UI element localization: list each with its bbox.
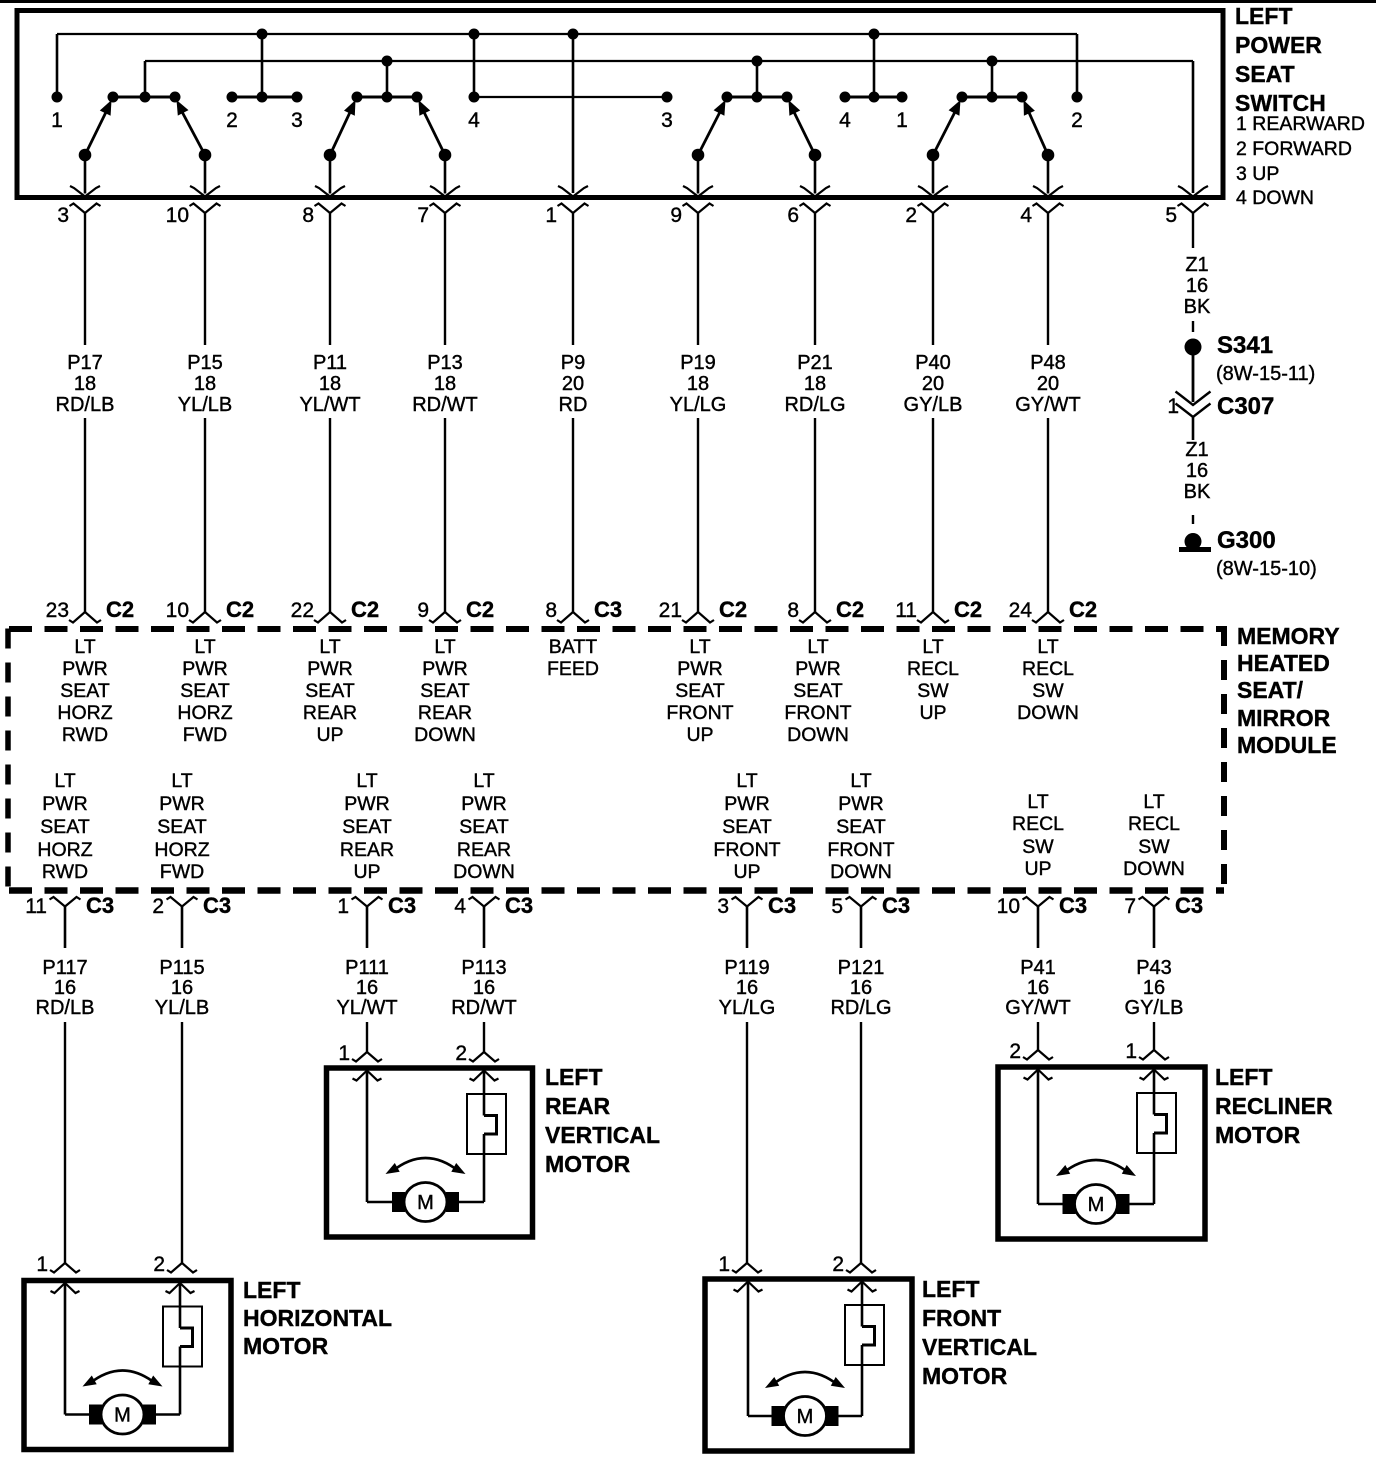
svg-text:18: 18 [804,373,826,395]
wire P41 lower / motor pin 2 connector [1009,1022,1053,1063]
svg-text:SEAT: SEAT [180,680,230,702]
svg-text:16: 16 [736,977,758,999]
svg-text:G300: G300 [1217,527,1276,554]
circuit breaker in left rear vertical motor [458,1071,507,1203]
svg-text:UP: UP [316,724,343,746]
switch S4 right wiper contact and arrow [1024,100,1064,197]
svg-text:2: 2 [832,1253,844,1276]
svg-text:9: 9 [417,599,429,622]
wire terminal 2-3 link [232,92,297,103]
svg-text:P21: P21 [797,352,833,374]
svg-text:SEAT: SEAT [40,816,90,838]
left front vertical motor pin 2 entry arrow [848,1282,877,1292]
circuit breaker in left horizontal motor [155,1283,203,1415]
left front vertical motor pin 1 entry arrow [734,1282,763,1292]
svg-text:C3: C3 [388,893,416,918]
svg-text:20: 20 [922,373,944,395]
connector C3 pin 1 / wire P111 upper [337,893,416,948]
svg-text:MOTOR: MOTOR [1215,1122,1301,1148]
svg-text:Z1: Z1 [1185,254,1208,276]
junction bus B x387 [382,56,393,98]
wire bus B right drop to pin 5 [1192,61,1195,193]
wire P13 lower / connector C2 pin 9 [417,418,494,623]
svg-text:8: 8 [545,599,557,622]
module input label LT PWR SEAT REAR DOWN [414,636,476,746]
svg-text:DOWN: DOWN [453,861,515,883]
svg-text:2: 2 [153,1253,165,1276]
svg-text:C3: C3 [882,893,910,918]
wire label P9 20 RD [559,352,588,416]
svg-text:23: 23 [46,599,69,622]
rotation arrow in left rear vertical motor [386,1158,466,1174]
svg-text:LEFT: LEFT [1235,3,1293,29]
svg-text:MODULE: MODULE [1237,732,1337,758]
wire label P121 16 RD/LG [830,957,891,1019]
svg-text:PWR: PWR [724,793,770,815]
label MEMORY HEATED SEAT/MIRROR MODULE [1237,623,1340,758]
svg-text:3: 3 [57,204,69,227]
module input label BATT FEED [547,636,599,680]
svg-text:C2: C2 [466,597,494,622]
svg-text:RECL: RECL [1012,813,1064,835]
node terminal 4 (right group) [839,92,851,133]
switch S3 right wiper contact and arrow [789,100,831,197]
svg-text:MIRROR: MIRROR [1237,705,1331,731]
svg-text:SEAT: SEAT [836,816,886,838]
svg-text:4: 4 [839,109,851,132]
wire P40 lower / connector C2 pin 11 [895,418,982,623]
svg-text:1: 1 [545,204,557,227]
svg-text:SEAT: SEAT [675,680,725,702]
svg-text:P17: P17 [67,352,103,374]
module input label LT PWR SEAT REAR UP [303,636,357,746]
wire bus A right drop to terminal 2 [1076,34,1079,97]
svg-text:GY/LB: GY/LB [904,394,963,416]
switch S1 right wiper contact and arrow [177,100,221,197]
svg-text:1: 1 [338,1042,350,1065]
svg-text:LT: LT [1037,636,1058,658]
motor M in left rear vertical motor [393,1183,459,1222]
svg-text:LT: LT [473,770,494,792]
wire bus B left drop to switch 1 center [144,61,147,97]
junction bus B x992 [987,56,998,98]
svg-text:REAR: REAR [340,839,394,861]
wire label P117 16 RD/LB [36,957,95,1019]
wire P11 lower / connector C2 pin 22 [291,418,379,623]
svg-text:6: 6 [787,204,799,227]
rotation arrow in left recliner motor [1056,1160,1136,1176]
ground G300 symbol [1179,533,1211,550]
module input label LT RECL SW DOWN [1017,636,1079,724]
wire label P43 16 GY/LB [1125,957,1184,1019]
wire left rear vertical motor left leg [367,1071,394,1203]
svg-text:(8W-15-10): (8W-15-10) [1216,558,1317,580]
svg-text:C3: C3 [594,597,622,622]
motor M in left horizontal motor [90,1395,156,1434]
svg-text:DOWN: DOWN [1123,858,1185,880]
svg-text:P19: P19 [680,352,716,374]
svg-text:LT: LT [434,636,455,658]
svg-text:9: 9 [670,204,682,227]
svg-text:2 FORWARD: 2 FORWARD [1236,138,1352,160]
svg-text:4 DOWN: 4 DOWN [1236,187,1314,209]
svg-text:LT: LT [319,636,340,658]
svg-text:RECL: RECL [907,658,959,680]
wire label P48 20 GY/WT [1015,352,1081,416]
svg-text:C2: C2 [351,597,379,622]
svg-text:SEAT: SEAT [305,680,355,702]
junction bus A x262 [257,29,268,98]
svg-text:18: 18 [434,373,456,395]
svg-text:M: M [797,1406,814,1428]
svg-text:LEFT: LEFT [922,1276,980,1302]
svg-text:(8W-15-11): (8W-15-11) [1216,363,1315,385]
svg-text:REAR: REAR [418,702,472,724]
svg-text:RD/LG: RD/LG [784,394,845,416]
svg-text:C3: C3 [203,893,231,918]
circuit breaker in left front vertical motor [837,1282,884,1417]
svg-text:P13: P13 [427,352,463,374]
svg-text:VERTICAL: VERTICAL [922,1334,1037,1360]
svg-text:BK: BK [1184,296,1211,318]
svg-text:LT: LT [922,636,943,658]
left rear vertical motor box [327,1068,533,1237]
wire left front vertical motor left leg [748,1282,773,1417]
svg-text:2: 2 [1009,1040,1021,1063]
svg-text:C2: C2 [954,597,982,622]
svg-text:PWR: PWR [838,793,884,815]
connector C3 pin 10 / wire P41 upper [997,893,1087,948]
label S341 [1217,332,1273,359]
svg-text:LEFT: LEFT [545,1064,603,1090]
label Z1 16 BK upper [1184,254,1211,318]
svg-text:SEAT: SEAT [793,680,843,702]
svg-text:2: 2 [905,204,917,227]
connector pin 8 at switch / wire P11 upper [302,204,345,346]
svg-text:C2: C2 [719,597,747,622]
wire S341 to C307 [1192,347,1195,402]
wire label P13 18 RD/WT [412,352,478,416]
svg-text:RD: RD [559,394,588,416]
left front vertical motor box [705,1279,912,1451]
switch S1 left wiper contact and arrow [70,100,112,197]
svg-text:LT: LT [171,770,192,792]
svg-text:M: M [417,1192,434,1214]
svg-text:YL/LG: YL/LG [670,394,727,416]
svg-text:P9: P9 [561,352,585,374]
svg-text:SEAT: SEAT [459,816,509,838]
svg-text:FWD: FWD [160,861,204,883]
svg-text:3: 3 [717,895,729,918]
svg-text:RD/WT: RD/WT [451,997,517,1019]
svg-text:21: 21 [659,599,682,622]
node terminal 3 (left group) [291,92,303,133]
wire label P111 16 YL/WT [336,957,397,1019]
wire label P19 18 YL/LG [670,352,727,416]
module output label LT PWR SEAT REAR DOWN [453,770,515,883]
svg-text:BK: BK [1184,481,1211,503]
svg-text:SEAT: SEAT [420,680,470,702]
svg-text:FEED: FEED [547,658,599,680]
module input label LT PWR SEAT FRONT UP [666,636,733,746]
svg-text:UP: UP [353,861,380,883]
svg-text:18: 18 [687,373,709,395]
svg-text:FRONT: FRONT [713,839,780,861]
wire P117 lower / motor pin 1 connector [36,1022,80,1276]
svg-text:P43: P43 [1136,957,1172,979]
svg-text:PWR: PWR [182,658,228,680]
label Z1 16 BK lower [1184,439,1211,503]
connector pin 4 at switch / wire P48 upper [1020,204,1063,346]
node terminal 2 (left group) [226,92,238,133]
module output label LT PWR SEAT FRONT UP [713,770,780,883]
svg-text:8: 8 [302,204,314,227]
svg-text:SEAT: SEAT [722,816,772,838]
svg-text:C2: C2 [106,597,134,622]
svg-text:PWR: PWR [307,658,353,680]
svg-text:YL/LG: YL/LG [719,997,776,1019]
module input label LT RECL SW UP [907,636,959,724]
svg-text:LT: LT [194,636,215,658]
svg-text:P48: P48 [1030,352,1066,374]
svg-text:C3: C3 [86,893,114,918]
svg-text:DOWN: DOWN [1017,702,1079,724]
svg-text:1: 1 [1167,395,1179,418]
wire P9 lower / connector C3 pin 8 [545,418,622,623]
connector pin 10 at switch / wire P15 upper [166,204,221,346]
svg-text:GY/LB: GY/LB [1125,997,1184,1019]
svg-text:YL/LB: YL/LB [178,394,232,416]
junction bus A x874 [869,29,880,98]
svg-text:LT: LT [74,636,95,658]
wire P43 lower / motor pin 1 connector [1125,1022,1169,1063]
svg-text:7: 7 [1124,895,1136,918]
svg-text:16: 16 [473,977,495,999]
label G300 [1217,527,1276,554]
left recliner motor pin 1 entry arrow [1024,1070,1053,1080]
svg-text:PWR: PWR [344,793,390,815]
svg-text:REAR: REAR [457,839,511,861]
switch S2 left wiper contact and arrow [315,100,356,197]
bus wire A (switch common feed upper) [57,33,1077,35]
svg-text:PWR: PWR [461,793,507,815]
svg-text:16: 16 [171,977,193,999]
svg-text:HORZ: HORZ [37,839,92,861]
connector C307 symbol [1176,392,1211,441]
svg-text:16: 16 [1027,977,1049,999]
svg-text:C2: C2 [1069,597,1097,622]
label LEFT POWER SEAT SWITCH [1235,3,1326,116]
svg-text:C2: C2 [836,597,864,622]
svg-text:LT: LT [736,770,757,792]
page top border line [0,0,1376,3]
svg-text:MOTOR: MOTOR [243,1333,329,1359]
motor M in left recliner motor [1063,1185,1129,1224]
switch S1 fixed contacts [108,92,181,103]
svg-text:10: 10 [997,895,1020,918]
svg-text:P115: P115 [159,957,204,979]
svg-text:1: 1 [718,1253,730,1276]
svg-text:P117: P117 [42,957,87,979]
svg-text:SEAT: SEAT [1235,61,1295,87]
svg-text:C3: C3 [505,893,533,918]
left rear vertical motor pin 1 entry arrow [353,1071,382,1081]
svg-text:18: 18 [74,373,96,395]
svg-text:SEAT: SEAT [157,816,207,838]
svg-text:DOWN: DOWN [414,724,476,746]
svg-text:DOWN: DOWN [787,724,849,746]
svg-text:RD/WT: RD/WT [412,394,478,416]
switch S4 left wiper contact and arrow [918,100,961,197]
svg-text:SEAT/: SEAT/ [1237,677,1304,703]
svg-text:18: 18 [194,373,216,395]
svg-text:VERTICAL: VERTICAL [545,1122,660,1148]
svg-text:SW: SW [1022,836,1054,858]
svg-text:16: 16 [356,977,378,999]
svg-text:MEMORY: MEMORY [1237,623,1340,649]
svg-text:YL/WT: YL/WT [336,997,397,1019]
svg-text:SW: SW [1138,836,1170,858]
svg-text:S341: S341 [1217,332,1273,359]
label left recliner motor [1215,1064,1333,1148]
wire dash above S341 [1192,321,1194,332]
svg-text:HEATED: HEATED [1237,650,1330,676]
switch S2 right wiper contact and arrow [419,100,461,197]
svg-text:RECL: RECL [1128,813,1180,835]
svg-text:SEAT: SEAT [60,680,110,702]
module output label LT PWR SEAT HORZ RWD [37,770,92,883]
svg-text:4: 4 [1020,204,1032,227]
label G300 reference [1216,558,1317,580]
connector pin 3 at switch / wire P17 upper [57,204,100,346]
node terminal 3 (center) [661,92,673,133]
wire P15 lower / connector C2 pin 10 [166,418,254,623]
connector C3 pin 3 / wire P119 upper [717,893,796,948]
rotation arrow in left horizontal motor [83,1371,163,1387]
wire P111 lower / motor pin 1 connector [338,1022,382,1065]
svg-text:SEAT: SEAT [342,816,392,838]
svg-text:FRONT: FRONT [784,702,851,724]
connector pin 6 at switch / wire P21 upper [787,204,830,346]
memory heated seat mirror module dashed box [8,626,1224,891]
svg-text:C3: C3 [768,893,796,918]
switch S3 fixed contacts [722,92,793,103]
svg-text:20: 20 [1037,373,1059,395]
wire label P41 16 GY/WT [1005,957,1071,1019]
svg-text:10: 10 [166,599,189,622]
svg-text:RECL: RECL [1022,658,1074,680]
wire label P115 16 YL/LB [155,957,209,1019]
svg-text:LT: LT [356,770,377,792]
svg-text:20: 20 [562,373,584,395]
left recliner motor pin 2 entry arrow [1140,1070,1169,1080]
connector C3 pin 7 / wire P43 upper [1124,893,1203,948]
svg-text:Z1: Z1 [1185,439,1208,461]
connector C3 pin 4 / wire P113 upper [454,893,533,948]
svg-text:UP: UP [733,861,760,883]
svg-text:10: 10 [166,204,189,227]
svg-text:16: 16 [1186,460,1208,482]
module output label LT RECL SW DOWN [1123,791,1185,880]
svg-text:LT: LT [689,636,710,658]
junction bus A x474 [469,29,480,98]
connector C3 pin 11 / wire P117 upper [25,893,114,948]
svg-text:PWR: PWR [159,793,205,815]
svg-text:GY/WT: GY/WT [1005,997,1071,1019]
wire pin1 batt feed arrow at box edge [558,186,588,197]
svg-text:MOTOR: MOTOR [922,1363,1008,1389]
svg-text:RWD: RWD [42,861,88,883]
wire P119 lower / motor pin 1 connector [718,1022,762,1276]
module output label LT PWR SEAT FRONT DOWN [827,770,894,883]
svg-text:RD/LG: RD/LG [830,997,891,1019]
svg-text:LEFT: LEFT [243,1277,301,1303]
label left front vertical motor [922,1276,1037,1389]
svg-text:P15: P15 [187,352,223,374]
wire P48 lower / connector C2 pin 24 [1009,418,1097,623]
svg-text:UP: UP [686,724,713,746]
label C307 [1217,393,1274,420]
svg-text:C3: C3 [1059,893,1087,918]
svg-text:22: 22 [291,599,314,622]
connector pin 2 at switch / wire P40 upper [905,204,948,346]
svg-text:LT: LT [54,770,75,792]
svg-text:2: 2 [455,1042,467,1065]
junction bus B x757 [752,56,763,98]
svg-text:PWR: PWR [795,658,841,680]
svg-text:1: 1 [1125,1040,1137,1063]
svg-text:REAR: REAR [303,702,357,724]
svg-text:11: 11 [895,599,917,622]
svg-text:POWER: POWER [1235,32,1322,58]
connector pin 5 at switch [1165,204,1208,228]
svg-text:BATT: BATT [549,636,597,658]
svg-text:3: 3 [291,109,303,132]
rotation arrow in left front vertical motor [765,1372,845,1388]
node terminal 1 [51,92,63,133]
wire P21 lower / connector C2 pin 8 [787,418,864,623]
motor M in left front vertical motor [772,1397,838,1436]
wire label P11 18 YL/WT [299,352,360,416]
label C307 pin 1 [1167,395,1179,418]
svg-text:YL/LB: YL/LB [155,997,209,1019]
wire P17 lower / connector C2 pin 23 [46,418,134,623]
wire Z1 upper segment [1192,213,1194,248]
svg-text:RECLINER: RECLINER [1215,1093,1333,1119]
label left rear vertical motor [545,1064,660,1177]
svg-text:SW: SW [1032,680,1064,702]
svg-text:LT: LT [850,770,871,792]
node terminal 1 (right group) [896,92,908,133]
module input label LT PWR SEAT HORZ RWD [57,636,112,746]
splice S341 [1185,339,1202,356]
svg-text:1 REARWARD: 1 REARWARD [1236,113,1365,135]
svg-text:FRONT: FRONT [666,702,733,724]
switch S3 left wiper contact and arrow [683,100,726,197]
svg-text:UP: UP [1024,858,1051,880]
svg-text:SW: SW [917,680,949,702]
left horizontal motor pin 2 entry arrow [166,1283,195,1293]
svg-text:YL/WT: YL/WT [299,394,360,416]
svg-text:P40: P40 [915,352,951,374]
svg-text:UP: UP [919,702,946,724]
wire left horizontal motor left leg [65,1283,91,1415]
svg-text:5: 5 [831,895,843,918]
svg-text:2: 2 [152,895,164,918]
svg-text:1: 1 [337,895,349,918]
wire P121 lower / motor pin 2 connector [832,1022,876,1276]
svg-text:LT: LT [1027,791,1048,813]
